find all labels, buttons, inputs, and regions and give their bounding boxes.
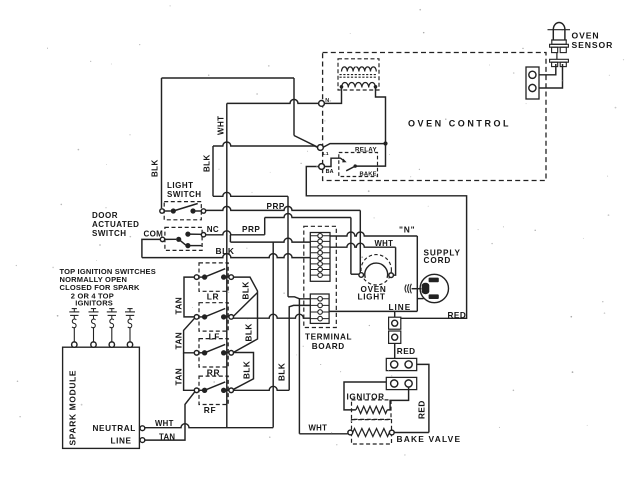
svg-text:TERMINAL: TERMINAL <box>305 333 352 342</box>
svg-text:TAN: TAN <box>175 297 184 315</box>
svg-text:PRP: PRP <box>267 202 285 211</box>
svg-text:LR: LR <box>207 292 219 302</box>
svg-text:SWITCH: SWITCH <box>167 190 202 199</box>
svg-text:SWITCH: SWITCH <box>92 229 127 238</box>
svg-text:TAN: TAN <box>175 368 184 386</box>
svg-text:NC: NC <box>207 225 219 234</box>
svg-text:NEUTRAL: NEUTRAL <box>93 424 136 433</box>
svg-text:LIGHT: LIGHT <box>358 292 386 301</box>
svg-text:TAN: TAN <box>159 432 175 441</box>
svg-text:CORD: CORD <box>424 256 452 265</box>
svg-text:ACTUATED: ACTUATED <box>92 220 139 229</box>
svg-text:SENSOR: SENSOR <box>572 40 614 50</box>
svg-text:RELAY: RELAY <box>355 147 377 154</box>
svg-text:RF: RF <box>204 405 216 415</box>
svg-text:"N": "N" <box>399 225 415 235</box>
svg-text:BLK: BLK <box>278 363 287 381</box>
svg-text:BAKE: BAKE <box>360 172 377 178</box>
svg-text:BLK: BLK <box>151 159 160 177</box>
svg-text:LF: LF <box>209 332 220 342</box>
svg-text:LIGHT: LIGHT <box>167 181 194 190</box>
svg-text:L1: L1 <box>323 151 329 157</box>
svg-text:OVEN: OVEN <box>572 30 600 40</box>
svg-text:WHT: WHT <box>309 424 328 433</box>
svg-text:N: N <box>325 98 329 104</box>
svg-text:TAN: TAN <box>175 332 184 350</box>
svg-text:PRP: PRP <box>242 225 260 234</box>
svg-text:RED: RED <box>448 311 467 320</box>
svg-text:WHT: WHT <box>217 116 226 135</box>
svg-text:BLK: BLK <box>245 323 254 341</box>
svg-text:IGNITORS: IGNITORS <box>75 299 113 308</box>
svg-text:COM: COM <box>144 230 164 239</box>
svg-text:WHT: WHT <box>155 419 174 428</box>
svg-text:BA: BA <box>326 169 334 175</box>
svg-text:WHT: WHT <box>375 239 394 248</box>
svg-text:BLK: BLK <box>243 361 252 379</box>
svg-text:BAKE VALVE: BAKE VALVE <box>397 434 462 444</box>
svg-text:BLK: BLK <box>242 281 251 299</box>
svg-text:LINE: LINE <box>389 303 412 312</box>
svg-text:OVEN CONTROL: OVEN CONTROL <box>408 119 511 129</box>
svg-text:SPARK MODULE: SPARK MODULE <box>68 370 78 446</box>
svg-text:BOARD: BOARD <box>312 342 345 351</box>
svg-text:RED: RED <box>397 347 416 356</box>
svg-text:RED: RED <box>418 400 427 419</box>
svg-text:DOOR: DOOR <box>92 211 118 220</box>
svg-text:LINE: LINE <box>111 437 132 446</box>
svg-text:BLK: BLK <box>203 154 212 172</box>
svg-text:BLK: BLK <box>216 246 235 256</box>
